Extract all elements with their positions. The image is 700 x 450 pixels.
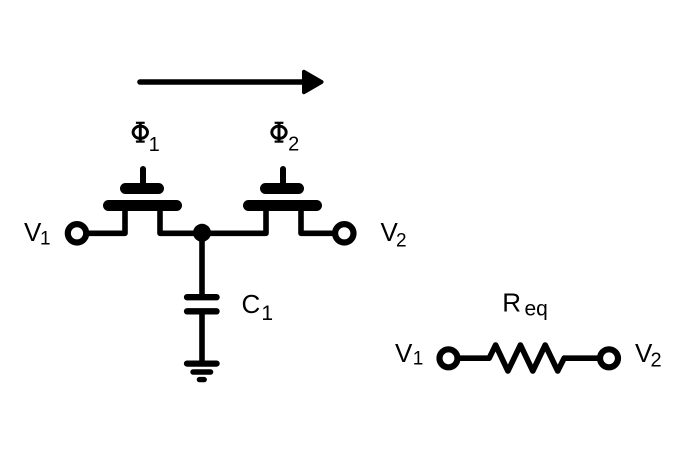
svg-text:1: 1	[149, 134, 160, 156]
wire M2 drain to V2 terminal	[301, 206, 335, 233]
svg-text:2: 2	[651, 350, 662, 372]
label V1 (input)	[24, 217, 51, 250]
svg-text:1: 1	[261, 302, 273, 325]
label C1	[242, 289, 274, 325]
svg-text:1: 1	[413, 348, 424, 369]
svg-text:eq: eq	[525, 298, 548, 321]
resistor Req (zigzag)	[489, 345, 564, 371]
wire node A to C1 top plate	[199, 233, 205, 295]
terminal V2 of equivalent resistor	[600, 349, 618, 367]
terminal V1 of equivalent resistor	[440, 349, 458, 367]
label phi1 (clock phase 1)	[133, 122, 160, 156]
label V1 (equivalent circuit, left)	[395, 338, 423, 369]
transistor M2 (MOS switch, clock phi2)	[243, 169, 322, 211]
label V2 (output)	[381, 217, 407, 251]
label phi2 (clock phase 2)	[272, 122, 299, 155]
wire Req right lead to terminal	[563, 355, 600, 361]
label V2 (equivalent circuit, right)	[635, 338, 662, 372]
svg-text:1: 1	[40, 229, 51, 250]
node A (junction dot)	[193, 224, 211, 242]
wire C1 bottom plate to ground	[199, 312, 205, 361]
svg-text:2: 2	[396, 230, 407, 251]
transistor M1 (MOS switch, clock phi1)	[103, 169, 182, 211]
svg-text:2: 2	[288, 133, 299, 155]
svg-text:R: R	[502, 288, 521, 318]
label Req	[502, 288, 548, 321]
wire terminal to Req left lead	[457, 355, 490, 361]
svg-text:C: C	[242, 289, 261, 319]
svg-text:V: V	[395, 338, 413, 368]
terminal V1 (port circle)	[68, 224, 86, 242]
wire V1 terminal to M1 source	[87, 206, 126, 233]
arrow: charge-transfer direction	[140, 72, 322, 92]
wire M1 drain to node A to M2 source	[160, 206, 266, 233]
capacitor C1	[187, 297, 216, 311]
terminal V2 (port circle)	[335, 224, 353, 242]
ground	[187, 364, 217, 380]
